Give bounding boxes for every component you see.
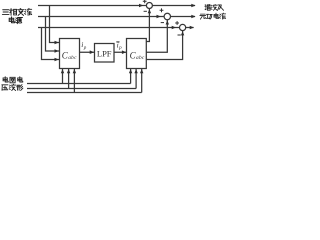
svg-text:abc: abc	[136, 55, 145, 61]
svg-text:abc: abc	[68, 55, 77, 61]
svg-text:LPF: LPF	[97, 48, 112, 58]
svg-text:p: p	[118, 46, 122, 51]
svg-text:p: p	[83, 46, 87, 51]
